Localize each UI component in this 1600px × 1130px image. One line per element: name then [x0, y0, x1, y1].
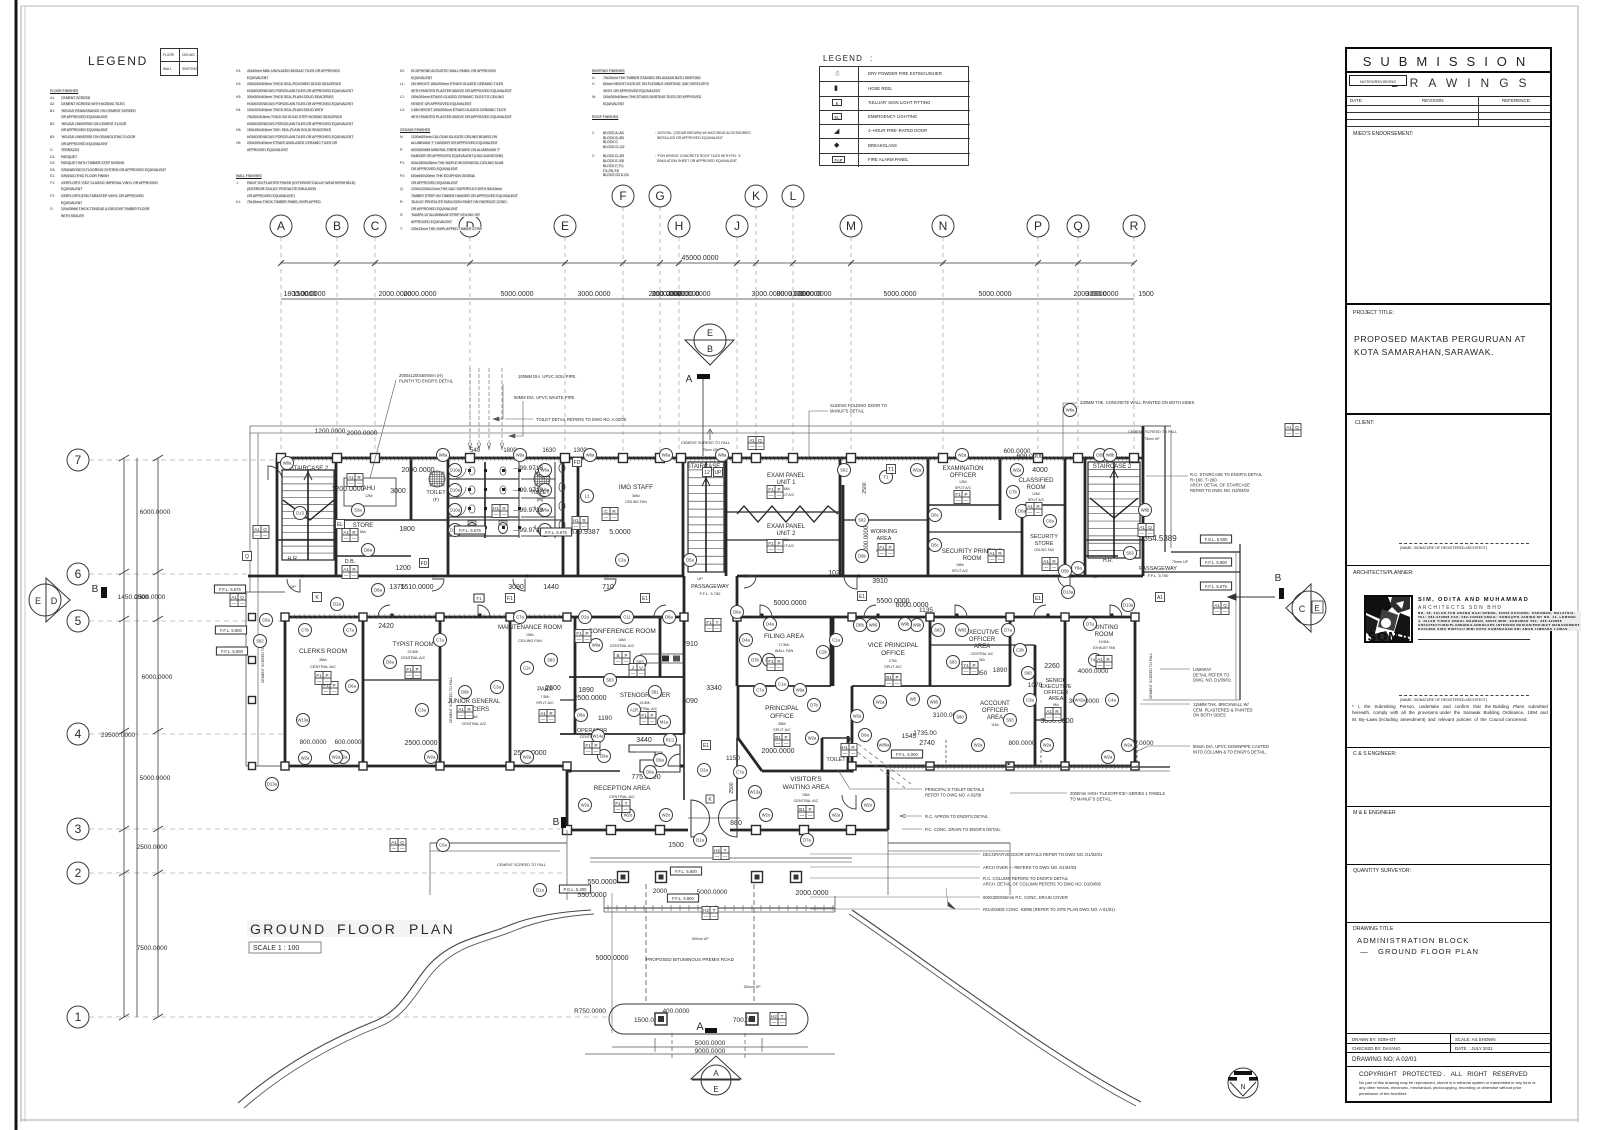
svg-text:600X300X50mm P.C. CONC. DRA: 600X300X50mm P.C. CONC. DRAIN COVER [983, 895, 1068, 900]
wall conference bottom [569, 676, 684, 678]
svg-text:—: — [887, 681, 892, 686]
wall filing bottom [738, 685, 831, 687]
svg-text:CEMENT SCREED TO FALL: CEMENT SCREED TO FALL [1149, 653, 1153, 699]
note linkway [1193, 667, 1232, 683]
sheet binding edge line [15, 0, 18, 1130]
svg-text:D9a: D9a [861, 733, 869, 738]
symbol circle D13a [1062, 586, 1075, 599]
svg-text:A: A [686, 374, 693, 385]
svg-text:S83: S83 [934, 628, 942, 633]
door swing upper 15 [744, 576, 756, 588]
svg-text:A1: A1 [343, 567, 349, 572]
svg-text:1500: 1500 [668, 842, 684, 849]
svg-text:F.F.L. 5.675: F.F.L. 5.675 [545, 530, 567, 535]
symbol box A1Q [1138, 524, 1154, 537]
svg-text:—: — [357, 481, 362, 486]
svg-text:E: E [1314, 604, 1319, 613]
linkway wall west [1164, 426, 1166, 552]
grid bubble 2 [67, 862, 89, 884]
column low x363 [359, 762, 367, 770]
door swing upper 13 [844, 576, 857, 589]
svg-text:OFFICE: OFFICE [881, 650, 905, 657]
svg-text:PROPOSED BITUMINOUS PREMIX: PROPOSED BITUMINOUS PREMIX ROAD [646, 957, 735, 962]
ffl left 3 [216, 647, 247, 655]
note screed bottom [497, 863, 546, 867]
svg-text:ROADSIDE CONC. KERB (REFER: ROADSIDE CONC. KERB (REFER TO SITE PLAN … [983, 907, 1115, 912]
svg-text:W6a: W6a [586, 453, 595, 458]
svg-text:D6c: D6c [931, 513, 938, 518]
grid bubble F [612, 185, 634, 207]
svg-text:SPLIT A/C: SPLIT A/C [536, 701, 554, 705]
symbol circle D10a [449, 484, 462, 497]
verandah step left [246, 591, 285, 593]
svg-text:2500: 2500 [862, 482, 868, 493]
svg-text:—: — [604, 515, 609, 520]
svg-text:PLINTH TO ENGR'S DETAIL: PLINTH TO ENGR'S DETAIL [399, 378, 454, 383]
wall upper vertical x1143 [1142, 426, 1145, 576]
svg-text:W13a: W13a [298, 718, 310, 723]
note brickwall [1193, 702, 1253, 718]
symbol box A1Q [748, 437, 764, 450]
svg-text:CENTRAL A/C: CENTRAL A/C [401, 656, 426, 660]
grid line G [659, 207, 661, 456]
symbol circle D2a [331, 598, 344, 611]
svg-text:H1: H1 [573, 518, 579, 523]
svg-text:6: 6 [75, 567, 82, 581]
svg-text:—: — [712, 914, 717, 919]
svg-text:5: 5 [75, 614, 82, 628]
svg-text:STAIRCASE 2: STAIRCASE 2 [1093, 464, 1132, 470]
svg-text:—: — [1287, 431, 1292, 436]
symbol circle S62 [856, 514, 869, 527]
symbol circle W2a [425, 751, 438, 764]
svg-text:T1: T1 [888, 467, 894, 473]
svg-text:W2o: W2o [662, 813, 671, 818]
svg-text:—: — [808, 813, 813, 818]
wall upper vertical x1022 [1021, 505, 1024, 576]
svg-text:—: — [631, 671, 636, 676]
svg-text:CEMENT SCREED TO FALL: CEMENT SCREED TO FALL [1128, 430, 1177, 434]
svg-text:F1: F1 [477, 596, 483, 601]
svg-text:N: N [939, 219, 948, 233]
svg-text:B: B [707, 344, 713, 354]
svg-text:E: E [707, 328, 713, 338]
pipe line x502 [501, 368, 503, 452]
svg-text:D6a: D6a [1018, 509, 1026, 514]
svg-text:2260: 2260 [1044, 663, 1060, 670]
symbol circle D6c [929, 509, 942, 522]
svg-text:RC1: RC1 [666, 738, 675, 743]
grid line H [678, 237, 680, 456]
column top x281 [277, 454, 286, 463]
svg-text:12M²: 12M² [1032, 492, 1041, 496]
door swing room 12 [478, 605, 490, 617]
porch right vertical [887, 830, 889, 895]
symbol circle W8a [1064, 404, 1077, 417]
svg-text:W2a: W2a [853, 714, 862, 719]
note pc conc drain [925, 827, 1001, 832]
svg-text:—: — [895, 681, 900, 686]
svg-text:W6a: W6a [662, 453, 671, 458]
road edge right inner [849, 914, 1136, 1106]
svg-text:F1: F1 [406, 667, 412, 672]
svg-text:CENTRAL A/C: CENTRAL A/C [310, 664, 336, 669]
symbol circle C8b [1094, 449, 1107, 462]
svg-text:12M²: 12M² [959, 480, 968, 484]
symbol circle W86 [867, 619, 880, 632]
island column 1 [655, 1013, 667, 1025]
column top x375 [371, 454, 380, 463]
svg-text:W2a: W2a [1124, 743, 1133, 748]
svg-text:1200.0000: 1200.0000 [315, 428, 346, 435]
svg-text:2000: 2000 [653, 888, 668, 895]
wall upper vertical x448 [447, 458, 450, 576]
svg-text:J: J [632, 665, 634, 670]
svg-text:A1: A1 [254, 527, 260, 532]
grid bubble 6 [67, 563, 89, 585]
svg-text:AHU: AHU [363, 486, 376, 492]
svg-text:A1: A1 [1027, 504, 1033, 509]
svg-text:W5: W5 [910, 697, 917, 702]
verandah bottom [246, 765, 285, 767]
svg-text:WALL FAN: WALL FAN [775, 649, 794, 653]
svg-text:—: — [325, 679, 330, 684]
svg-text:CEMENT SCREED TO FALL: CEMENT SCREED TO FALL [681, 441, 730, 445]
symbol square Q [243, 552, 252, 561]
svg-text:W9a: W9a [796, 688, 805, 693]
symbol circle D7a [1084, 618, 1097, 631]
wall security printing top [928, 531, 1022, 533]
svg-text:C7b: C7b [301, 628, 309, 633]
svg-text:C7a: C7a [516, 615, 524, 620]
symbol circle W83 [956, 624, 969, 637]
svg-text:5000.0000: 5000.0000 [773, 600, 806, 607]
svg-text:2600: 2600 [545, 685, 561, 692]
svg-text:B: B [1275, 573, 1282, 584]
symbol circle S83 [545, 654, 558, 667]
wall upper vertical x277 [276, 458, 279, 576]
svg-text:7500.0000: 7500.0000 [137, 945, 168, 952]
svg-text:W9b: W9b [913, 623, 922, 628]
svg-text:—: — [777, 665, 782, 670]
svg-text:CENTRAL A/C: CENTRAL A/C [794, 799, 819, 803]
symbol on island [770, 1013, 786, 1026]
roof overhang left vertical 2 [257, 433, 259, 592]
svg-text:—: — [769, 547, 774, 552]
roof overhang left vertical [249, 426, 251, 592]
ffl right 3 [1200, 582, 1231, 590]
svg-text:W2a: W2a [808, 736, 817, 741]
grid bubble D [459, 215, 481, 237]
svg-text:2000.0000: 2000.0000 [1073, 291, 1106, 298]
svg-text:Q: Q [1148, 525, 1152, 530]
title block [1345, 47, 1552, 1103]
svg-text:—: — [780, 1020, 785, 1025]
note rc staircase [1190, 472, 1263, 493]
svg-text:ROOM: ROOM [963, 556, 982, 562]
svg-text:D10a: D10a [450, 508, 461, 513]
symbol circle D1a [534, 884, 547, 897]
pipe line x489 [488, 368, 490, 452]
svg-text:D8a: D8a [374, 588, 382, 593]
svg-text:TOILET: TOILET [426, 490, 446, 496]
svg-text:SECURITY: SECURITY [1030, 534, 1058, 540]
svg-text:EXAMINATION: EXAMINATION [943, 466, 984, 472]
column top x851 [847, 454, 856, 463]
svg-text:EXHAUST FAN: EXHAUST FAN [1093, 646, 1116, 650]
equipment maintenance counter [641, 654, 683, 663]
svg-text:D6c: D6c [931, 543, 938, 548]
svg-text:R.C. APRON TO ENGR'S DETAI: R.C. APRON TO ENGR'S DETAIL [925, 814, 989, 819]
door swing room 5 [654, 605, 666, 617]
svg-text:E: E [561, 219, 569, 233]
svg-text:MANUF'S DETAIL: MANUF'S DETAIL [830, 408, 865, 413]
symbol box A1R [988, 550, 1004, 563]
symbol circle W2a [972, 739, 985, 752]
symbol box H1R [492, 505, 508, 518]
svg-text:D5a: D5a [686, 558, 694, 563]
staircase 2 left treads [282, 470, 334, 560]
svg-text:P: P [777, 541, 780, 546]
svg-text:T: T [625, 801, 628, 806]
symbol circle C7a [754, 684, 767, 697]
svg-text:—99.9718: —99.9718 [513, 465, 543, 472]
svg-text:R.C. STAIRCASE TO ENGR'S D: R.C. STAIRCASE TO ENGR'S DETAIL [1190, 472, 1263, 477]
symbol circle S93 [1004, 714, 1017, 727]
svg-text:A: A [713, 1069, 719, 1078]
symbol circle W2a [956, 449, 969, 462]
note arch over [983, 865, 1077, 870]
ffl east verandah [891, 750, 922, 758]
column mid x363 [359, 613, 367, 621]
svg-text:A1: A1 [458, 707, 464, 712]
island axis line [611, 893, 613, 1033]
door swing corridor 1 [287, 579, 300, 592]
symbol circle C1a [830, 634, 843, 647]
svg-text:2: 2 [75, 866, 82, 880]
svg-text:—: — [1098, 663, 1103, 668]
svg-text:2000.0000: 2000.0000 [666, 291, 699, 298]
svg-text:W2a: W2a [974, 743, 983, 748]
svg-text:DECORATIVE DOOR DETAILS REF: DECORATIVE DOOR DETAILS REFER TO DWG NO.… [983, 852, 1103, 857]
svg-text:1800: 1800 [399, 526, 415, 533]
svg-text:Q: Q [758, 438, 762, 443]
svg-text:Q: Q [240, 595, 244, 600]
svg-text:C2b: C2b [819, 650, 827, 655]
dimension chain line top [281, 298, 1134, 300]
svg-text:A: A [696, 1021, 704, 1033]
svg-text:C2a: C2a [618, 558, 626, 563]
svg-text:—: — [639, 671, 644, 676]
svg-text:36M²: 36M² [319, 658, 328, 662]
column low x510 [506, 762, 514, 770]
svg-text:E1: E1 [703, 743, 709, 749]
symbol circle C3b [1014, 644, 1027, 657]
wall senior exec divider [1035, 719, 1065, 721]
symbol circle D6a [731, 606, 744, 619]
svg-text:—: — [888, 551, 893, 556]
grid bubble 7 [67, 449, 89, 471]
svg-text:CENTRAL A/C: CENTRAL A/C [971, 652, 994, 656]
apron line east 2 [888, 850, 1010, 852]
svg-text:D1a: D1a [536, 888, 544, 893]
left dimension chain line 2 [136, 458, 138, 1017]
svg-text:—: — [344, 536, 349, 541]
symbol circle S03 [1124, 547, 1137, 560]
svg-text:A1: A1 [749, 438, 755, 443]
wall reception south west [567, 829, 688, 832]
svg-text:D6a: D6a [348, 684, 356, 689]
wall DB room top [336, 555, 411, 557]
sheet border right [1577, 6, 1579, 1122]
svg-text:75mm UP: 75mm UP [702, 448, 718, 452]
porch line 1 [590, 857, 852, 859]
wall reception north step [567, 770, 620, 772]
svg-text:W2a: W2a [332, 755, 341, 760]
note concrete wall [1080, 400, 1195, 405]
grid line 7 [89, 459, 277, 461]
exam panel zigzag partition [737, 506, 838, 522]
svg-text:—: — [1295, 431, 1300, 436]
symbol circle M1a [658, 716, 671, 729]
note toilet detail [536, 417, 627, 422]
door swing room 7 [864, 605, 876, 617]
svg-text:38M²: 38M² [778, 722, 787, 726]
grid bubble 4 [67, 723, 89, 745]
svg-text:SPLIT A/C: SPLIT A/C [952, 569, 969, 573]
svg-text:D6a: D6a [386, 660, 394, 665]
symbol circle D7b [808, 699, 821, 712]
wall upper vertical x928 [927, 458, 930, 576]
svg-text:DWG. NO. D1/09/01: DWG. NO. D1/09/01 [1193, 678, 1232, 683]
ffl porch 1 [670, 867, 701, 875]
svg-text:F.F.L. 5.750: F.F.L. 5.750 [1148, 573, 1169, 578]
svg-text:1200.0000: 1200.0000 [331, 486, 364, 493]
svg-text:W2a: W2a [301, 756, 310, 761]
apron line east [888, 842, 1010, 844]
grid bubble L [782, 185, 804, 207]
sheet border left [20, 6, 22, 1122]
door swing corridor 3 [513, 579, 525, 591]
legend key box [160, 48, 198, 76]
svg-text:710: 710 [602, 584, 614, 591]
symbol square A1 [1156, 593, 1165, 602]
svg-text:—: — [349, 481, 354, 486]
wall lobby east [736, 738, 738, 800]
wall lower vertical x822 [821, 738, 824, 771]
column reception x660 [656, 826, 665, 835]
wall exam panel divider 2 [726, 539, 840, 541]
symbol circle W2a [911, 464, 924, 477]
entrance threshold [688, 817, 740, 819]
legend roof desc [655, 131, 790, 164]
svg-text:Q: Q [400, 840, 404, 845]
column top x565 [561, 454, 570, 463]
svg-text:D7a: D7a [1004, 628, 1012, 633]
symbol circle S83 [947, 656, 960, 669]
staircase 2 right treads [1088, 462, 1140, 558]
svg-text:PASSAGEWAY: PASSAGEWAY [691, 584, 729, 590]
symbol circle W9b [911, 619, 924, 632]
svg-text:VICE PRINCIPAL: VICE PRINCIPAL [868, 642, 919, 649]
legend column 3 [400, 68, 555, 232]
svg-text:W13a: W13a [750, 790, 762, 795]
svg-text:P: P [325, 673, 328, 678]
svg-text:TO MANUF'S DETAIL.: TO MANUF'S DETAIL. [1070, 796, 1112, 801]
svg-text:2000.0000: 2000.0000 [795, 890, 828, 897]
symbol box A1Q [230, 594, 246, 607]
toilet block fixtures [429, 462, 565, 538]
note decorative door [983, 852, 1103, 857]
svg-text:W2a: W2a [427, 755, 436, 760]
symbol box CR [602, 508, 618, 521]
symbol circle D2a [698, 764, 711, 777]
symbol circle C4a [1106, 694, 1119, 707]
svg-text:—: — [972, 669, 977, 674]
pgl porch [559, 885, 590, 893]
symbol square UP [714, 468, 723, 477]
symbol circle D8b [854, 619, 867, 632]
symbol circle D8a [362, 544, 375, 557]
symbol circle W6b [1139, 504, 1152, 517]
wall hatch top [278, 456, 1142, 769]
svg-text:A1: A1 [1097, 657, 1103, 662]
svg-text:T: T [713, 908, 716, 913]
stair arrow right [1110, 470, 1118, 550]
column reception x567 [563, 826, 572, 835]
svg-text:L1: L1 [585, 494, 590, 499]
symbol circle D6b [856, 550, 869, 563]
svg-text:—: — [585, 637, 590, 642]
linkway top line [1143, 425, 1171, 427]
svg-text:—: — [707, 626, 712, 631]
svg-text:—: — [263, 533, 268, 538]
section marker E/D left [29, 584, 61, 616]
wall lower vertical x510 [509, 617, 512, 766]
svg-text:T: T [724, 848, 727, 853]
wall lower vertical x737 [736, 576, 739, 686]
stair arrow mid [702, 478, 710, 566]
svg-text:PASSAGEWAY: PASSAGEWAY [1139, 566, 1177, 572]
wall staircase2/HR divider [277, 539, 336, 541]
svg-text:22.5M²: 22.5M² [408, 650, 420, 654]
legend roof blocks [592, 131, 662, 178]
svg-text:A1: A1 [231, 595, 237, 600]
svg-text:SPLIT A/C: SPLIT A/C [773, 728, 791, 732]
symbol circle C7b [299, 624, 312, 637]
grid bubble 5 [67, 610, 89, 632]
svg-text:T: T [716, 620, 719, 625]
symbol circle W8b [1104, 449, 1117, 462]
svg-text:CENTRAL A/C: CENTRAL A/C [610, 644, 635, 648]
svg-text:B: B [333, 219, 341, 233]
wall visitor north [762, 770, 852, 773]
column top x660 [656, 454, 665, 463]
drop-off island [609, 1004, 808, 1034]
svg-text:L: L [790, 189, 797, 203]
svg-text:P: P [332, 683, 335, 688]
note flexoffice [1070, 791, 1165, 801]
symbol circle W13a [297, 714, 310, 727]
symbol circle C2a [616, 554, 629, 567]
symbol circle W2o [660, 809, 673, 822]
svg-text:1440: 1440 [543, 584, 559, 591]
svg-text:D10a: D10a [450, 468, 461, 473]
symbol circle W8a [716, 449, 729, 462]
svg-text:W14a: W14a [593, 734, 605, 739]
column mid x510 [506, 613, 514, 621]
svg-text:2000.0000: 2000.0000 [761, 748, 794, 755]
